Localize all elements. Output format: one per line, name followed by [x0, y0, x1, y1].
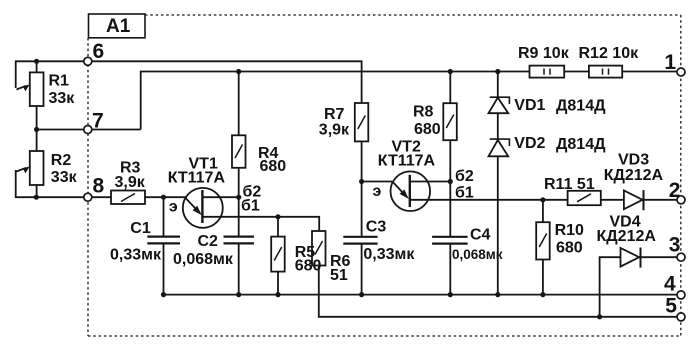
resistor R5 leads — [277, 217, 279, 295]
junction R2 bottom node8 — [34, 195, 39, 200]
junction VT1 b2 / R4 / C2 — [236, 195, 241, 200]
diode VD4 — [621, 248, 640, 267]
svg-text:0,068мк: 0,068мк — [452, 247, 503, 262]
resistor R9 body — [530, 66, 565, 78]
capacitor C1 leads — [163, 197, 165, 294]
svg-text:3,9к: 3,9к — [115, 174, 146, 191]
resistor R3 body — [111, 191, 145, 205]
svg-text:R7: R7 — [324, 106, 345, 123]
svg-text:8: 8 — [93, 175, 105, 198]
resistor R7 slash — [358, 116, 366, 130]
resistor R8 body — [443, 103, 457, 140]
junction R1 top — [34, 59, 39, 64]
pin circle node 6 — [84, 57, 92, 65]
resistor R7 bottom lead — [361, 141, 363, 181]
resistor R9 marks — [544, 69, 550, 75]
potentiometer R2 wiper arrow — [17, 168, 27, 172]
svg-text:R10: R10 — [555, 222, 584, 239]
transistor VT2 b1 wire to R11 VD3 node2 — [410, 199, 677, 201]
junction C4 ground — [448, 292, 453, 297]
transistor VT1 b1 wire to R5/R6 — [202, 217, 319, 231]
svg-text:R9 10к: R9 10к — [518, 45, 570, 62]
svg-text:R8: R8 — [413, 104, 434, 121]
capacitor C2 plates — [224, 237, 255, 244]
capacitor C1 plates — [147, 237, 180, 244]
svg-text:С1: С1 — [130, 220, 151, 237]
resistor R6 body — [312, 231, 326, 266]
resistor R2 body — [30, 151, 44, 185]
svg-text:A1: A1 — [106, 16, 131, 37]
pin circle node 5 — [677, 313, 685, 321]
svg-text:С3: С3 — [366, 219, 387, 236]
svg-text:51: 51 — [330, 267, 348, 284]
resistor R8 slash — [446, 115, 454, 129]
junction C1 ground — [161, 292, 166, 297]
svg-text:б1: б1 — [455, 185, 474, 202]
resistor R11 slash — [577, 194, 591, 202]
resistor R12 body — [589, 66, 622, 78]
svg-text:4: 4 — [664, 273, 676, 296]
svg-text:0,33мк: 0,33мк — [110, 247, 162, 264]
svg-text:КД212А: КД212А — [597, 228, 657, 245]
svg-text:6: 6 — [93, 40, 105, 63]
svg-text:3,9к: 3,9к — [319, 122, 350, 139]
junction VT2 emitter / C3 — [359, 179, 364, 184]
junction R10 top — [540, 197, 545, 202]
resistor R8 leads — [449, 72, 451, 182]
junction R10 ground — [540, 292, 545, 297]
capacitor C3 leads — [361, 182, 363, 295]
svg-text:R1: R1 — [49, 73, 70, 90]
junction R5 top — [275, 214, 280, 219]
ground rail to node 4 — [164, 294, 678, 296]
wire VD4 feed from lower rail — [600, 257, 677, 317]
potentiometer R1 wiper arrow — [17, 86, 27, 90]
svg-text:R11 51: R11 51 — [544, 176, 595, 193]
pin circle node 7 — [84, 126, 92, 134]
svg-text:КТ117А: КТ117А — [168, 170, 226, 187]
svg-text:Д814Д: Д814Д — [556, 136, 606, 153]
transistor VT2 emitter arrow — [392, 182, 406, 197]
resistor R6 slash — [315, 241, 323, 255]
svg-text:680: 680 — [414, 121, 441, 138]
junction R8 top rail — [448, 69, 453, 74]
svg-text:680: 680 — [260, 158, 287, 175]
transistor VT2 base bar — [409, 175, 411, 207]
capacitor C4 plates — [432, 237, 468, 244]
wire node6 rail from pot R1 wiper feed to R7 drop — [16, 61, 362, 103]
svg-text:0,068мк: 0,068мк — [173, 251, 234, 268]
pin circle node 1 — [677, 68, 685, 76]
resistor R4 slash — [235, 145, 243, 159]
junction C2 ground — [236, 292, 241, 297]
pin circle node 8 — [84, 193, 92, 201]
svg-text:Д814Д: Д814Д — [556, 98, 606, 115]
capacitor C4 leads — [449, 182, 451, 295]
zener VD1 — [489, 98, 509, 114]
svg-text:С4: С4 — [470, 227, 491, 244]
svg-text:33к: 33к — [51, 169, 78, 186]
svg-text:б2: б2 — [455, 168, 474, 185]
dashed module border A1 box outline — [88, 15, 681, 336]
svg-text:VD3: VD3 — [618, 152, 649, 169]
svg-text:VD2: VD2 — [514, 135, 545, 152]
capacitor C2 leads — [238, 197, 240, 294]
zener VD2 — [489, 140, 509, 156]
svg-text:7: 7 — [92, 110, 104, 133]
junction R5 ground — [275, 292, 280, 297]
zener chain lead from rail — [497, 72, 499, 295]
resistor R1 body — [30, 72, 44, 106]
svg-text:VD1: VD1 — [514, 97, 545, 114]
transistor VT1 envelope — [183, 188, 223, 228]
svg-text:R12 10к: R12 10к — [579, 45, 640, 62]
junction R4 top rail — [236, 69, 241, 74]
svg-text:э: э — [373, 183, 382, 200]
wire node7 rail up to +rail to node 1 — [37, 72, 677, 130]
resistor R5 body — [271, 237, 285, 272]
svg-text:э: э — [169, 199, 178, 216]
svg-text:С2: С2 — [198, 233, 219, 250]
svg-text:5: 5 — [665, 295, 677, 318]
resistor R5 slash — [274, 247, 282, 261]
transistor VT1 emitter arrow — [185, 197, 199, 212]
svg-text:680: 680 — [556, 240, 583, 257]
pin circle node 4 — [677, 291, 685, 299]
wire VT2 emitter — [362, 181, 392, 183]
svg-text:0,33мк: 0,33мк — [363, 246, 415, 263]
resistor R10 body — [536, 222, 550, 259]
resistor R4 leads — [238, 72, 240, 198]
resistor R12 marks — [603, 69, 609, 75]
svg-text:1: 1 — [664, 51, 676, 74]
diode VD3 — [624, 191, 643, 210]
resistor R10 slash — [539, 234, 547, 248]
svg-text:3: 3 — [669, 234, 681, 257]
junction C3 ground — [359, 292, 364, 297]
resistor R4 body — [232, 135, 246, 168]
resistor R10 leads — [542, 200, 544, 295]
junction zener chain rail — [495, 69, 500, 74]
A1 module box — [89, 14, 146, 38]
resistor R7 body — [355, 103, 369, 141]
svg-text:680: 680 — [295, 258, 322, 275]
svg-text:R2: R2 — [51, 152, 72, 169]
resistor R1 leads — [36, 61, 38, 129]
svg-text:КД212А: КД212А — [604, 167, 664, 184]
transistor VT2 b2 wire — [410, 181, 451, 183]
junction VD4 lower rail — [597, 314, 602, 319]
resistor R11 body — [568, 191, 601, 205]
transistor VT2 envelope — [391, 171, 431, 211]
junction VD2 ground — [495, 292, 500, 297]
pin circle node 3 — [677, 253, 685, 261]
svg-text:КТ117А: КТ117А — [378, 153, 436, 170]
wire node8 rail — [16, 170, 187, 197]
svg-text:2: 2 — [669, 179, 681, 202]
transistor VT1 base bar — [201, 190, 203, 223]
junction emitter VT1 / C1 top — [161, 195, 166, 200]
junction R1-R2 node7 — [34, 127, 39, 132]
svg-text:б1: б1 — [241, 198, 260, 215]
svg-text:33к: 33к — [49, 90, 76, 107]
pin circle node 2 — [677, 196, 685, 204]
resistor R3 slash — [121, 194, 135, 202]
junction VT2 b2 / R8 / C4 — [448, 179, 453, 184]
capacitor C3 plates — [343, 237, 377, 244]
transistor VT1 b2 wire — [202, 196, 238, 198]
resistor R2 leads — [36, 130, 38, 198]
lower rail R6 to node 5 — [319, 266, 677, 317]
